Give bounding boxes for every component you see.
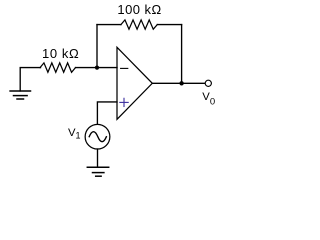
resistor R1 10 kOhm <box>40 63 76 72</box>
svg-text:100 kΩ: 100 kΩ <box>117 2 161 17</box>
wire node A to feedback rail <box>96 25 98 68</box>
terminal Vo open circle <box>205 80 211 86</box>
source V1 <box>85 124 110 149</box>
resistor R2 100 kOhm <box>121 20 157 29</box>
wire R1 to inverting input <box>76 67 118 69</box>
op-amp minus sign <box>121 67 128 69</box>
wire ground to R1 <box>20 68 40 91</box>
wire output <box>152 82 205 84</box>
wire top rail right <box>157 24 181 26</box>
wire feedback down to output node <box>181 25 183 84</box>
op-amp U1 <box>117 47 152 119</box>
node output junction dot <box>179 81 183 85</box>
sine wave of V1 <box>89 132 106 142</box>
svg-text:10 kΩ: 10 kΩ <box>42 46 79 61</box>
node A junction dot <box>95 66 99 70</box>
ground GND1 (left) <box>10 91 30 99</box>
wire V1 to ground <box>97 149 99 167</box>
ground GND2 (bottom) <box>87 167 108 176</box>
wire top rail left <box>97 24 121 26</box>
wire plus input <box>97 102 117 124</box>
op-amp plus sign <box>120 98 128 106</box>
